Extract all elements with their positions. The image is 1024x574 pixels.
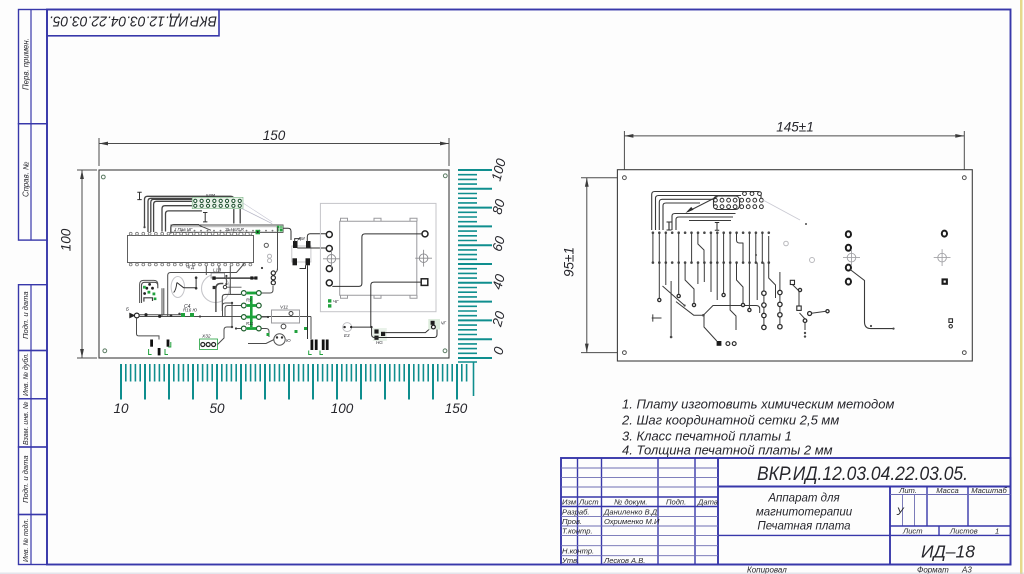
svg-text:Лит.: Лит.	[898, 486, 917, 495]
top designation box	[47, 10, 219, 36]
svg-text:Листов: Листов	[949, 527, 978, 536]
svg-text:С4: С4	[184, 304, 191, 310]
left view	[59, 128, 450, 358]
transistor V8	[274, 334, 291, 345]
svg-text:Подп. и дата: Подп. и дата	[21, 291, 30, 339]
callout diagonals	[242, 208, 273, 223]
diagonal arrow	[686, 197, 718, 214]
notes	[621, 397, 894, 458]
faint diagonal	[763, 200, 800, 220]
svg-text:НG: НG	[376, 340, 383, 345]
svg-text:Б: Б	[126, 307, 129, 312]
resistor pads R16	[181, 308, 198, 318]
dimension 145+-1	[624, 120, 964, 174]
right coordinate ruler	[458, 175, 477, 354]
bottom mid caps	[311, 340, 314, 351]
trace bundle nested	[652, 192, 761, 231]
designation cell	[718, 486, 1011, 488]
svg-text:Даниленко В.Д: Даниленко В.Д	[603, 507, 658, 516]
trace down to caps	[137, 318, 160, 340]
pin drop traces	[206, 266, 230, 294]
svg-text:1: 1	[995, 527, 999, 536]
trace under IC	[168, 264, 245, 317]
trace V8	[248, 340, 274, 344]
svg-text:Подп. и дата: Подп. и дата	[21, 455, 30, 503]
light ring	[810, 258, 815, 263]
svg-text:Ю: Ю	[286, 338, 291, 343]
connector pads grid	[714, 192, 764, 209]
below-row traces	[652, 263, 826, 341]
svg-text:Разраб.: Разраб.	[562, 507, 589, 516]
via pads columns	[658, 288, 829, 329]
svg-text:ЧГД: ЧГД	[186, 265, 195, 270]
right ruler corner	[458, 362, 477, 396]
transformer square pad	[421, 279, 428, 286]
square pad right	[942, 278, 948, 284]
svg-text:Аппарат для: Аппарат для	[767, 493, 839, 505]
mounting hole bottom-right	[443, 349, 447, 353]
svg-text:150: 150	[445, 401, 468, 416]
svg-text:Пров.: Пров.	[562, 517, 582, 526]
main bottom bus	[139, 313, 311, 339]
crosshair right	[934, 249, 951, 266]
cell Perv. primen.	[19, 10, 48, 124]
name cell	[718, 534, 890, 536]
svg-text:У: У	[896, 506, 905, 518]
green pad cluster bottom-right	[428, 319, 446, 330]
svg-text:ИД–18: ИД–18	[921, 542, 975, 562]
component V11	[272, 305, 300, 329]
svg-text:10: 10	[113, 401, 129, 416]
lit massa masshtab section	[889, 487, 891, 565]
left part verticals	[577, 458, 579, 565]
svg-text:E3: E3	[344, 333, 350, 338]
svg-text:50: 50	[209, 401, 225, 416]
green bracket marks	[149, 342, 171, 355]
svg-text:Н.контр.: Н.контр.	[562, 547, 594, 556]
IC DD1 bottom pins	[129, 263, 252, 266]
dimension 100	[59, 170, 98, 358]
dots misc	[670, 223, 807, 338]
traces around resistors	[225, 286, 273, 337]
list row	[890, 525, 1011, 527]
mounting holes	[623, 176, 967, 355]
connector X1 pads	[192, 192, 243, 208]
cell Inv. No podl.	[19, 515, 48, 565]
svg-text:150: 150	[263, 128, 286, 143]
transformer pads col2	[942, 231, 947, 237]
svg-text:95±1: 95±1	[562, 247, 577, 277]
speaker E3	[343, 323, 373, 338]
cell Podp. i data (upper)	[19, 285, 48, 351]
middle elbow traces	[223, 302, 234, 328]
svg-text:3. Класс печатной платы 1: 3. Класс печатной платы 1	[622, 429, 792, 444]
svg-text:Подп.: Подп.	[666, 497, 686, 506]
svg-text:ЧГ: ЧГ	[333, 299, 339, 304]
pin dot row lower	[652, 261, 770, 264]
svg-text:4. Толщина печатной платы 2 мм: 4. Толщина печатной платы 2 мм	[622, 443, 833, 458]
svg-text:X32: X32	[201, 334, 211, 340]
transformer pad right	[422, 231, 428, 237]
bottom coordinate ruler	[126, 364, 467, 382]
svg-text:Дата: Дата	[697, 497, 718, 506]
transformer T1 outer	[320, 203, 436, 311]
transformer pads col1	[846, 231, 851, 284]
thin change rows	[561, 467, 718, 469]
via dots mid	[199, 267, 269, 330]
svg-text:Лист: Лист	[578, 497, 599, 506]
svg-text:№ докум.: № докум.	[614, 497, 647, 506]
trace transformer bottom	[371, 282, 421, 327]
svg-text:Взам. инв. №: Взам. инв. №	[23, 401, 30, 445]
crosshair right	[415, 250, 432, 267]
dimension 95+-1	[562, 178, 628, 353]
rulers	[113, 157, 508, 416]
right view	[562, 120, 973, 362]
IC DD1 body	[128, 236, 254, 263]
capacitor C10 bar	[167, 340, 170, 347]
svg-text:145±1: 145±1	[776, 120, 813, 135]
small squares bottom	[717, 280, 802, 346]
svg-text:Инв. № подл.: Инв. № подл.	[22, 519, 30, 562]
svg-text:Утв.: Утв.	[561, 556, 579, 565]
svg-text:магнитотерапии: магнитотерапии	[756, 507, 853, 519]
svg-text:Т.контр.: Т.контр.	[562, 527, 593, 536]
wire bundle top-left	[143, 196, 240, 233]
right ruler labels	[488, 157, 508, 357]
cell Sprav No	[19, 124, 48, 240]
header row	[561, 496, 718, 498]
trace X32 up	[218, 327, 233, 345]
relay K1 rounded component	[140, 280, 158, 303]
svg-text:ДМ: ДМ	[297, 236, 305, 241]
transformer pads left	[326, 232, 332, 286]
mounting hole bottom-left	[103, 349, 107, 353]
svg-text:L1Я: L1Я	[213, 267, 222, 272]
svg-text:1. Плату изготовить химическим: 1. Плату изготовить химическим методом	[622, 397, 894, 412]
short link V	[225, 276, 227, 284]
svg-text:Масса: Масса	[936, 486, 958, 495]
svg-text:Охрименко М.И: Охрименко М.И	[604, 517, 660, 526]
svg-text:R11: R11	[246, 321, 253, 326]
polarity marks	[667, 222, 672, 230]
connector loop	[714, 196, 740, 210]
crosshair left	[843, 249, 860, 266]
big circle C9	[202, 267, 258, 312]
tiny pads right	[949, 319, 953, 323]
traces to corner pads	[385, 327, 431, 332]
svg-text:Перв. примен.: Перв. примен.	[22, 38, 31, 90]
svg-text:V11: V11	[280, 305, 289, 311]
pad block HG	[373, 328, 387, 345]
svg-text:Изм: Изм	[562, 497, 577, 506]
svg-text:R9: R9	[246, 298, 252, 303]
cell Inv. No dubl.	[19, 351, 48, 399]
svg-text:Печатная плата: Печатная плата	[757, 521, 850, 533]
svg-text:100: 100	[59, 228, 74, 251]
inter-row traces	[653, 233, 769, 263]
PCB copper side outline	[617, 170, 972, 361]
IC DD1 top pins	[129, 232, 252, 235]
transformer T1 inner	[340, 218, 417, 298]
svg-text:Лист: Лист	[902, 527, 923, 536]
svg-text:2. Шаг координатной сетки 2,5: 2. Шаг координатной сетки 2,5 мм	[621, 413, 839, 428]
svg-text:ВКР.ИД.12.03.04.22.03.05.: ВКР.ИД.12.03.04.22.03.05.	[49, 13, 217, 30]
cell Vzam. inv. No	[19, 399, 48, 447]
title block	[561, 458, 1011, 574]
vertical link with dots	[195, 276, 198, 289]
green pads below transformer ring	[328, 299, 331, 307]
svg-text:ВКР.ИД.12.03.04.22.03.05.: ВКР.ИД.12.03.04.22.03.05.	[757, 464, 968, 485]
connector strip X2	[171, 225, 283, 232]
scan bottom edge	[0, 573, 1024, 574]
bottom ruler labels	[113, 401, 467, 416]
svg-text:Инв. № дубл.: Инв. № дубл.	[22, 353, 30, 396]
resistors R column	[241, 291, 261, 331]
crosshair left	[323, 250, 340, 267]
svg-text:100: 100	[331, 401, 354, 416]
green pads row V2	[267, 327, 308, 336]
arrow left XS	[126, 307, 139, 319]
left column cells	[19, 10, 48, 565]
trace transformer top	[332, 234, 422, 287]
capacitor C8 bar	[158, 348, 161, 355]
paper right edge	[1020, 0, 1023, 574]
capacitor C7 bar	[150, 340, 153, 347]
svg-text:Лесков А.В.: Лесков А.В.	[603, 556, 645, 565]
svg-text:шим: шим	[206, 192, 215, 197]
svg-text:ЧГ: ЧГ	[441, 321, 447, 326]
dimension 150	[99, 128, 449, 166]
svg-text:ЗЬНпЛ R: ЗЬНпЛ R	[225, 227, 245, 232]
svg-text:Масштаб: Масштаб	[971, 486, 1007, 495]
connector X32	[200, 334, 218, 350]
node area right of IC	[256, 227, 327, 339]
double trace down from K1	[161, 288, 163, 316]
svg-text:Справ. №: Справ. №	[22, 162, 31, 197]
polarity mark I	[137, 192, 141, 199]
trace from pad3	[850, 269, 894, 329]
polarity mark I2	[203, 213, 207, 222]
mounting hole top-right	[443, 174, 447, 178]
cell Podp. i data (lower)	[19, 447, 48, 515]
oval component V3	[171, 277, 196, 298]
PCB board outline	[99, 170, 449, 358]
svg-text:t Пав ЧГ: t Пав ЧГ	[175, 227, 193, 232]
pin dot row upper	[652, 231, 770, 234]
mounting hole top-left	[101, 175, 105, 179]
